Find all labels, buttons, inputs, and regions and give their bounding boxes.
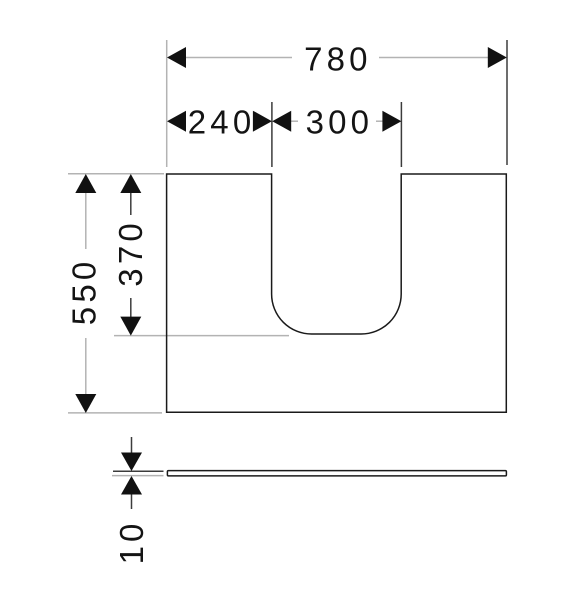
svg-text:300: 300 xyxy=(306,103,374,140)
svg-text:550: 550 xyxy=(66,258,103,326)
svg-text:10: 10 xyxy=(113,520,150,565)
svg-text:370: 370 xyxy=(112,219,149,287)
svg-text:780: 780 xyxy=(304,41,372,78)
svg-text:240: 240 xyxy=(188,103,256,140)
